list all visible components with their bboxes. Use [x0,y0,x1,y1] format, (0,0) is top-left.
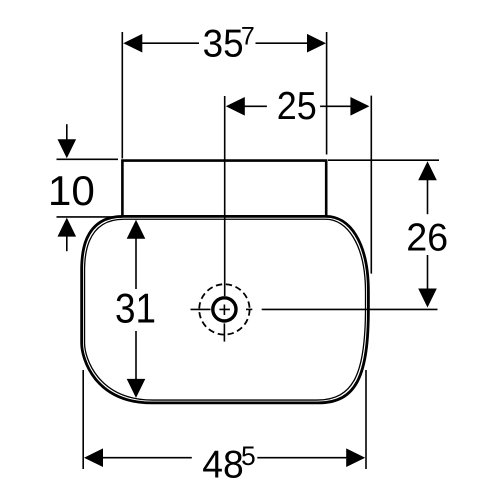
dim 48.5 left extension line [82,370,84,469]
dim 48.5 right arrowhead [346,448,365,467]
dim 35.7 right arrowhead [307,34,326,53]
vertical centerline below hole [223,323,225,341]
rear tap deck rectangle [122,161,326,218]
horizontal centerline short dash right of hole [246,308,252,310]
dim 31 lower stem [135,331,137,380]
svg-text:26: 26 [406,216,448,259]
dim 26 lower stem [427,255,429,290]
dim 10 upper extension line [57,158,119,160]
dim 35.7 left arrowhead [123,34,142,53]
dim 10 upper arrowhead [58,139,77,158]
faucet hole center plus mark [219,305,230,316]
dim 26 upper extension line [328,159,439,161]
dim 26 lower arrowhead [418,289,437,308]
horizontal centerline extension to dim 26 [262,308,438,310]
washbasin outer rim outline [82,216,369,403]
dim 25 left arrowhead [226,97,245,116]
vertical centerline from dim 25 to hole [224,96,226,296]
svg-text:25: 25 [277,85,317,128]
dim 48.5 left arrowhead [84,448,103,467]
washbasin inner rim line [85,219,366,400]
dim 25 right arrowhead [350,97,369,116]
dim 26 upper arrowhead [418,161,437,180]
dim 31 upper arrowhead [127,220,146,239]
dim 35.7 line left segment [141,42,199,44]
faucet hole solid circle [213,298,236,321]
svg-text:7: 7 [241,23,255,51]
dim 31 upper stem [135,238,137,289]
dim 48.5 line left segment [102,457,192,459]
svg-text:35: 35 [203,23,244,66]
dim 10 lower arrow stem [66,236,68,252]
dim 48.5 line right segment [257,457,347,459]
dim 31 lower arrowhead [127,379,146,398]
dim 10 lower arrowhead [58,218,77,237]
dim 10 lower extension line [57,216,123,218]
svg-text:31: 31 [115,284,156,331]
svg-text:48: 48 [202,444,244,487]
dim 25 line right segment [320,105,351,107]
dim 35.7 left extension line [121,32,123,159]
svg-text:10: 10 [48,167,95,214]
dim 48.5 right extension line [365,370,367,469]
dim 10 upper arrow stem [66,124,68,140]
dim 25 right extension line [370,96,372,274]
dim 25 line left segment [244,105,267,107]
svg-text:5: 5 [241,441,256,471]
dim 35.7 right extension line [326,32,328,155]
dim 26 upper stem [427,179,429,214]
dim 35.7 line right segment [256,42,309,44]
faucet hole dashed drill circle [199,284,249,334]
horizontal centerline left of hole [191,308,211,310]
